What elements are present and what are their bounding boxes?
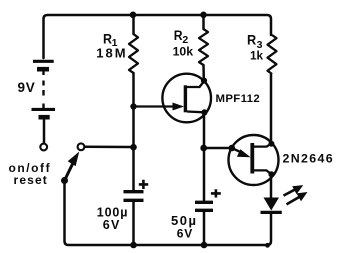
capacitor C1 100u 6V: [124, 192, 144, 201]
node dot switch wire / R1 column: [130, 144, 137, 151]
wire top rail from battery + to R3 top: [44, 15, 272, 58]
battery B1 9V: [32, 61, 56, 143]
wire switch circle to node A: [85, 146, 132, 149]
LED D1: [261, 198, 282, 213]
node dot base2 / R3: [268, 141, 274, 147]
svg-text:6V: 6V: [177, 227, 193, 241]
transistor Q2 2N2646 UJT: [229, 135, 279, 185]
wire 100u cap bottom to rail: [132, 202, 135, 245]
plus sign C1: [139, 180, 148, 189]
wire source dot down to 50u cap: [203, 113, 206, 201]
node dot bottom rail / C2: [201, 242, 208, 249]
wire bottom rail node B to node C: [135, 244, 202, 247]
transistor Q1 MPF112 JFET: [135, 74, 211, 123]
plus sign C2: [211, 189, 221, 197]
svg-text:1k: 1k: [250, 48, 264, 62]
resistor R2 10k: [199, 29, 208, 65]
switch label on/off reset: [9, 161, 52, 187]
node dot base1 / LED branch: [268, 171, 274, 177]
wire R2 top from rail: [202, 15, 205, 29]
wire node C to UJT emitter: [204, 147, 230, 150]
svg-text:6V: 6V: [103, 218, 121, 232]
wire R3 bottom to UJT base2 dot: [270, 74, 273, 143]
node dot emitter on circle: [229, 145, 236, 152]
node dot drain / R2 bottom: [201, 78, 207, 84]
node dot top rail / R1: [130, 12, 137, 19]
switch arm with arrow: [61, 152, 79, 185]
switch terminal circle (node side): [78, 143, 85, 150]
node dot top rail / R2: [200, 12, 207, 19]
wire switch arm bottom to bottom rail: [65, 182, 131, 245]
wire bottom rail node C to LED cathode branch: [206, 215, 271, 246]
wire UJT base1 dot to LED anode: [270, 176, 273, 198]
wire 50u cap bottom to rail: [203, 212, 206, 245]
svg-text:2N2646: 2N2646: [283, 152, 335, 166]
svg-text:R: R: [247, 31, 256, 47]
svg-text:MPF112: MPF112: [216, 93, 261, 105]
node dot source column / emitter wire: [200, 145, 207, 152]
wire R1 bottom to 100u cap top: [132, 73, 135, 190]
LED emission arrow 2: [287, 192, 308, 204]
svg-text:9V: 9V: [18, 80, 36, 95]
capacitor C2 50u 6V: [195, 202, 213, 210]
resistor R3 1k: [268, 35, 277, 74]
node dot gate junction: [130, 103, 136, 109]
svg-text:18M: 18M: [96, 45, 127, 60]
LED emission arrow 1: [284, 185, 304, 196]
wire R2 bottom to drain dot: [202, 65, 205, 80]
node dot source: [201, 109, 207, 115]
node dot bottom rail / LED corner: [265, 243, 270, 248]
svg-text:reset: reset: [14, 173, 48, 187]
node dot bottom rail / C1: [130, 242, 137, 249]
resistor R1 18M: [129, 34, 138, 73]
svg-text:10k: 10k: [173, 44, 194, 58]
switch terminal circle (battery side): [40, 144, 47, 151]
wire R1 top from rail: [132, 15, 135, 34]
